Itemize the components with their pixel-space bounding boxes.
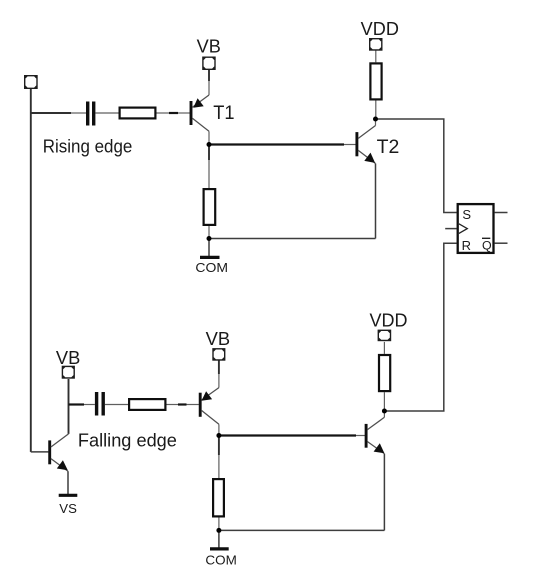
svg-text:VB: VB (206, 329, 231, 349)
svg-text:VDD: VDD (361, 19, 399, 39)
svg-text:T1: T1 (213, 102, 234, 124)
svg-text:COM: COM (195, 260, 228, 275)
svg-text:COM: COM (205, 553, 236, 568)
svg-text:VB: VB (197, 37, 221, 57)
svg-text:S: S (462, 207, 471, 222)
svg-text:Q: Q (482, 239, 492, 253)
svg-text:VB: VB (56, 348, 80, 368)
svg-text:Falling edge: Falling edge (78, 431, 177, 451)
svg-text:VDD: VDD (370, 311, 408, 331)
svg-text:T2: T2 (377, 136, 400, 158)
svg-text:VS: VS (59, 501, 77, 516)
svg-text:Rising edge: Rising edge (43, 136, 133, 156)
svg-text:R: R (462, 238, 471, 253)
